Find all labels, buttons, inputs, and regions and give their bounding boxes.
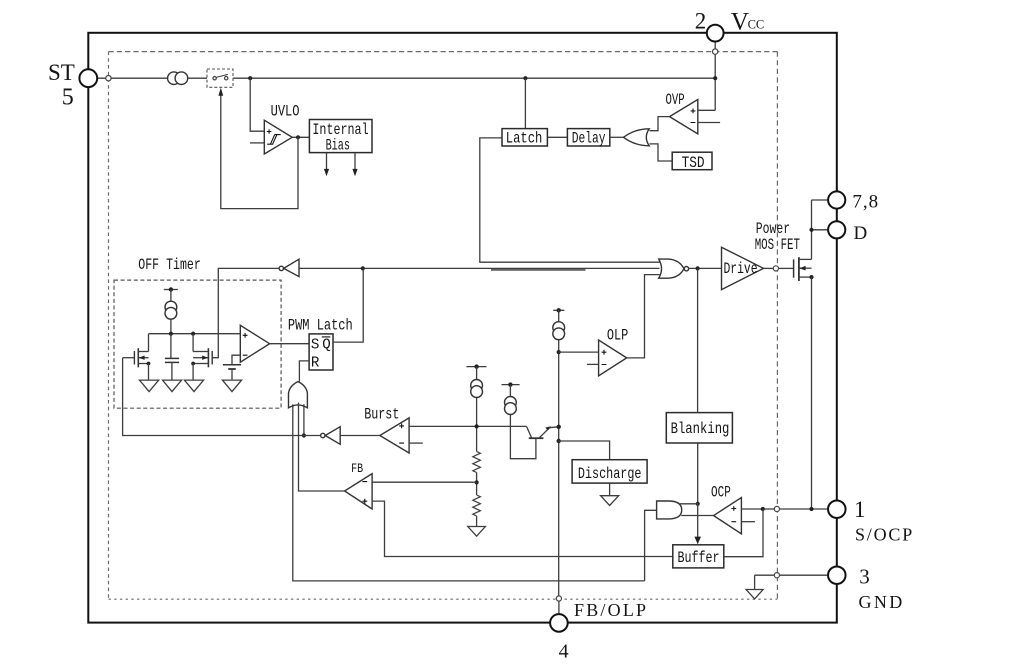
node: junction dot burst line [302, 433, 306, 437]
OR gate U6 (reset OR, pointing up) [289, 382, 308, 408]
block PWM Latch (S R Qbar) [309, 334, 333, 370]
wire: arrow from junction into Buffer [697, 504, 699, 537]
comparator U5 (OFF timer comparator) [240, 325, 269, 362]
pin D circle [828, 221, 845, 238]
wire: stray heavy segment artifact [491, 269, 586, 271]
wire: FB/OLP rail vertical [558, 340, 560, 596]
node: junction dot Buffer branch [761, 507, 765, 511]
node: junction dot on drain vertical [809, 228, 813, 232]
current source I2 (OFF timer) [165, 301, 177, 313]
wire: NOR junction down to Blanking [697, 268, 699, 412]
node: junction dot on ST rail at Latch branch [523, 76, 527, 80]
wire: inverter U3 output to OFF-timer right MOSFET gate [212, 268, 279, 357]
NOR gate U4 before Drive [659, 259, 684, 278]
node: junction dot source sense [809, 507, 813, 511]
node: rail dots [557, 350, 561, 354]
comparator OCP [714, 498, 742, 534]
current source I4 [505, 397, 517, 409]
wire: UVLO - input stub [250, 142, 264, 144]
wire: Blanking down to AND junction [697, 443, 699, 504]
OFF Timer dashed box [114, 280, 281, 408]
pin 5 ST circle [79, 69, 97, 87]
supply stub cs2 [502, 384, 520, 386]
svg-text:Blanking: Blanking [671, 420, 730, 438]
wire: OCP output to AND [681, 515, 713, 517]
svg-text:1: 1 [854, 497, 866, 522]
svg-text:S: S [311, 336, 320, 353]
wire: TSD to OR U2 bottom input [650, 144, 673, 161]
node: junction dot ST rail / VCC vertical [713, 76, 717, 80]
node: open circle VCC on dashed boundary [713, 49, 718, 54]
wire: MOSFET source down to OCP sense line [811, 277, 813, 509]
svg-text:CC: CC [748, 18, 765, 32]
wire: UVLO feedback loop to startup switch with up arrow [221, 96, 298, 209]
svg-text:OCP: OCP [711, 483, 731, 501]
comparator OLP [599, 340, 627, 376]
OR gate U2 (protection OR, pointing left) [624, 129, 650, 146]
svg-text:Drive: Drive [724, 260, 758, 278]
block Buffer [673, 545, 724, 568]
svg-text:R: R [311, 354, 320, 371]
comparator OVP [670, 100, 698, 134]
ground symbol under Discharge [601, 496, 619, 506]
block Latch [502, 129, 547, 146]
svg-text:Latch: Latch [506, 130, 543, 148]
node: open circle ST on dashed boundary [106, 76, 111, 81]
wire: drain vertical to pins 7,8 / D [811, 200, 813, 259]
wire: GND pin to internal ground [755, 574, 829, 576]
wire: I3 to divider node [476, 398, 478, 452]
svg-text:Bias: Bias [326, 136, 350, 154]
wire: Buffer right to OCP + line [724, 509, 763, 557]
node: junction dot NOR output / Blanking branch [696, 266, 700, 270]
wire: Latch output down-left to NOR input 1 [480, 138, 660, 262]
wire: OLP - stub [587, 363, 599, 365]
IC outer boundary box [88, 33, 837, 623]
ground symbol under R2 [468, 527, 486, 537]
ground symbol under C1 [163, 380, 182, 392]
svg-text:3: 3 [859, 565, 870, 589]
inner dashed control-circuit boundary: top edge [109, 51, 778, 53]
transistor M2 (right small MOSFET, mirrored) [192, 334, 194, 352]
svg-text:D: D [854, 223, 868, 244]
transistor Q2 (NPN, rotated) [529, 437, 544, 439]
wire: pin D stub [812, 229, 829, 231]
svg-text:GND: GND [859, 592, 905, 612]
wire: Internal Bias output arrow right [354, 153, 356, 170]
svg-text:OLP: OLP [607, 326, 628, 344]
wire: Drive output to gate [764, 267, 774, 269]
wire: R2 to ground [476, 516, 478, 527]
wire: supply to current source I3 [476, 367, 478, 380]
wire: U5 - input from reference [232, 355, 240, 365]
inner dashed boundary: right edge [776, 52, 778, 600]
wire: ground drop [754, 575, 756, 589]
block Discharge [572, 460, 647, 483]
svg-text:7,8: 7,8 [852, 192, 879, 213]
wire: supply to current source I4 [509, 385, 511, 397]
wire: Latch branch vertical from ST rail [524, 78, 526, 128]
wire: OR U6 input 1 from OCP/AND loop [293, 404, 645, 581]
wire: R1 to mid node [476, 473, 478, 496]
svg-text:Delay: Delay [572, 130, 606, 148]
wire: AND left side to reset loop [645, 510, 657, 581]
startup switch contacts and lever [213, 77, 216, 80]
svg-text:Buffer: Buffer [678, 549, 720, 567]
resistor R1 [473, 452, 481, 473]
ground symbol under battery [222, 380, 241, 392]
wire: U7 input from Burst comparator [340, 435, 380, 437]
wire: inverter U3 input line to NOR input 2 [299, 267, 660, 269]
svg-text:Discharge: Discharge [578, 465, 642, 483]
wire: OVP + input horizontal [698, 109, 715, 111]
ground symbol under M2 [184, 380, 203, 392]
wire: Discharge to ground [609, 483, 611, 496]
svg-text:OFF Timer: OFF Timer [138, 256, 201, 274]
wire: Burst - stub [409, 442, 423, 444]
svg-text:TSD: TSD [682, 154, 705, 172]
node: MOSFET source junction dot [809, 275, 813, 279]
startup switch dashed box [207, 69, 233, 87]
ground symbol near pin 3 [746, 590, 763, 599]
node: junction dot AND output / Blanking [696, 502, 700, 506]
current source I1 on startup rail (two overlapped circles) [168, 72, 181, 85]
block Internal Bias [309, 120, 372, 153]
block Delay [567, 129, 609, 146]
wire: NOR output to Drive [689, 267, 722, 269]
wire: OFF timer rail y=333.7 [149, 333, 241, 335]
pin 4 FB/OLP circle [550, 614, 568, 632]
svg-text:5: 5 [62, 85, 74, 111]
wire: U5 output to PWM latch S input [270, 343, 310, 345]
supply stub divider [466, 366, 486, 368]
svg-text:V: V [731, 8, 749, 35]
wire: rail to pin 4 [558, 601, 560, 614]
svg-text:FB: FB [351, 461, 363, 476]
wire: Latch to Delay [547, 136, 567, 138]
wire: OR U6 input 3 from burst line [303, 404, 305, 435]
svg-text:UVLO: UVLO [271, 102, 300, 120]
wire: rail to OLP + input [559, 351, 599, 353]
resistor R2 [473, 495, 481, 516]
node: open circle on dashed boundary (S/OCP) [774, 506, 779, 511]
inner dashed boundary: bottom edge [109, 598, 778, 600]
wire: pin 7,8 stub [812, 199, 829, 201]
node: open circle FB/OLP rail on dashed boundary [556, 596, 561, 601]
comparator Burst [380, 418, 409, 453]
wire: OR U6 input 2 from FB output [299, 403, 345, 492]
battery reference V1 [223, 364, 241, 366]
svg-text:OVP: OVP [666, 91, 685, 109]
wire: OR U6 output to R input [299, 361, 309, 382]
node: open circle on dashed boundary (GND) [774, 573, 779, 578]
wire: PWM latch Q output up to inverter line [333, 268, 363, 342]
node: divider mid node dot [475, 480, 479, 484]
svg-text:S/OCP: S/OCP [855, 525, 914, 545]
block TSD [672, 152, 712, 170]
svg-text:4: 4 [559, 641, 569, 663]
comparator UVLO [264, 120, 292, 154]
inner dashed boundary: left edge [108, 52, 110, 600]
wire: OLP output to NOR input 3 [627, 275, 660, 358]
buffer Drive triangle [722, 247, 764, 289]
wire: supply to current source I5 [558, 310, 560, 321]
supply stub in OFF timer [164, 289, 178, 291]
wire: AND to junction (top right) [679, 503, 698, 505]
transistor Q1 power MOSFET [793, 259, 795, 277]
transistor M1 (left small MOSFET) [148, 334, 150, 352]
wire: UVLO output to Internal Bias [292, 136, 309, 138]
wire: FB + input from Buffer [372, 501, 673, 556]
ground symbol under M1 [140, 380, 159, 392]
arrowhead into switch [218, 88, 223, 96]
wire: Burst + input to divider node and transistor base [409, 425, 526, 427]
wire: I2 to timer rail [170, 319, 172, 334]
wire: M1 gate lead [123, 357, 135, 359]
svg-text:2: 2 [695, 8, 707, 33]
pin 7,8 circle [828, 191, 845, 208]
pin 2 VCC circle [707, 25, 724, 42]
wire: OCP + input to pin 1 S/OCP [741, 508, 828, 510]
current source I3 (divider) [471, 380, 483, 392]
wire: VCC vertical from pin 2 down to OVP input corner [714, 41, 716, 110]
pin 1 S/OCP circle [828, 500, 846, 518]
wire: ST startup rail y=78 from pin 5 to VCC vertical [97, 77, 715, 79]
svg-text:MOS FET: MOS FET [755, 236, 800, 254]
node: UVLO output junction dot [296, 135, 300, 139]
node: open circle on dashed boundary at Drive output [773, 266, 778, 271]
comparator FB [345, 474, 373, 509]
node: junction dot PWM latch Q feedback on inverter line [361, 266, 365, 270]
wire: Internal Bias output arrow left [326, 153, 328, 170]
svg-text:ST: ST [48, 60, 75, 85]
svg-text:PWM Latch: PWM Latch [288, 316, 353, 334]
wire: OVP output to OR U2 top input [650, 117, 670, 131]
svg-text:Burst: Burst [364, 406, 399, 424]
svg-text:Q: Q [322, 336, 331, 353]
wire: burst line from M1 gate vertical to inverter U7 [123, 358, 321, 436]
wire: M1 source to ground [148, 364, 150, 381]
wire: mid node to FB - input [372, 481, 477, 483]
supply stub OLP rail [553, 309, 564, 311]
node: rail junction dots [169, 332, 173, 336]
wire: UVLO + input branch from rail [250, 78, 264, 131]
inverter U3 (pointing left, bubble at output) [284, 259, 299, 276]
block Blanking [666, 413, 732, 443]
current source I5 (FB/OLP pull-up) [553, 322, 565, 334]
wire: gate wire to power MOSFET [779, 267, 794, 269]
inverter U7 (burst inverter) [325, 427, 340, 445]
pin 3 GND circle [828, 566, 846, 584]
wire: rail to Discharge block [559, 441, 610, 460]
svg-text:FB/OLP: FB/OLP [574, 600, 648, 620]
wire: M2 source to ground [192, 364, 194, 381]
wire: supply to current source I2 [170, 290, 172, 302]
wire: Delay to OR gate U2 [610, 136, 624, 138]
wire: OCP - stub [741, 521, 755, 523]
node: junction dot on ST rail at x=250 [248, 76, 252, 80]
wire: OVP - input stub [698, 122, 720, 124]
AND gate U8 [657, 501, 682, 519]
capacitor C1 (timer cap) [170, 334, 172, 358]
wire: I4 down and around to Q2 collector [510, 415, 536, 459]
node: divider top node dot [475, 424, 479, 428]
